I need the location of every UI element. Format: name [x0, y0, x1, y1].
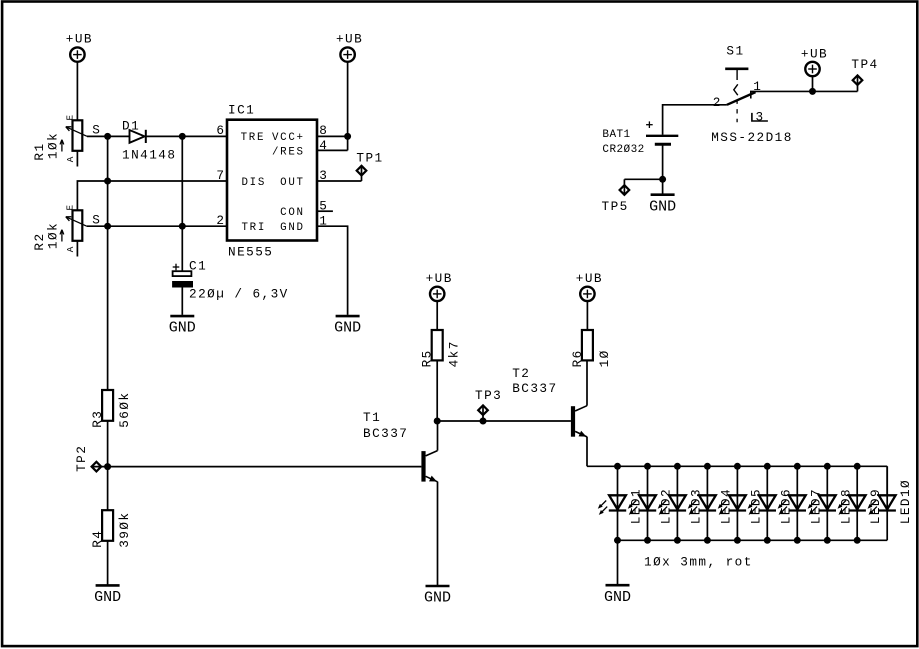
svg-text:39Øk: 39Øk	[117, 512, 132, 548]
svg-text:+UB: +UB	[66, 32, 93, 47]
svg-text:BC337: BC337	[512, 381, 557, 396]
svg-text:/RES: /RES	[272, 147, 305, 159]
svg-text:4: 4	[319, 138, 328, 153]
svg-text:OUT: OUT	[280, 177, 305, 189]
svg-text:1Ø: 1Ø	[597, 349, 612, 367]
svg-text:MSS-22D18: MSS-22D18	[711, 130, 793, 145]
svg-text:TP4: TP4	[851, 57, 878, 72]
svg-text:BC337: BC337	[363, 426, 408, 441]
svg-text:GND: GND	[169, 320, 196, 337]
svg-text:T2: T2	[512, 366, 530, 381]
svg-text:R2: R2	[32, 232, 47, 250]
svg-text:1Øx 3mm, rot: 1Øx 3mm, rot	[644, 555, 753, 570]
svg-text:C1: C1	[189, 259, 207, 274]
svg-text:CON: CON	[280, 207, 305, 219]
svg-text:VCC+: VCC+	[272, 132, 305, 144]
svg-text:T1: T1	[363, 410, 381, 425]
svg-text:S: S	[92, 123, 101, 138]
svg-text:+UB: +UB	[801, 46, 828, 61]
svg-text:4k7: 4k7	[447, 340, 462, 367]
svg-text:E: E	[64, 115, 75, 121]
svg-text:D1: D1	[122, 118, 140, 133]
svg-text:22Øµ / 6,3V: 22Øµ / 6,3V	[189, 287, 289, 302]
svg-text:TRI: TRI	[242, 222, 267, 234]
svg-text:7: 7	[216, 168, 225, 183]
svg-text:A: A	[65, 246, 76, 252]
svg-text:GND: GND	[280, 222, 305, 234]
svg-text:TP5: TP5	[602, 199, 629, 214]
svg-text:3: 3	[756, 109, 765, 124]
svg-text:R4: R4	[90, 530, 105, 548]
svg-text:3: 3	[319, 168, 328, 183]
svg-text:2: 2	[216, 213, 225, 228]
svg-text:CR2Ø32: CR2Ø32	[602, 144, 644, 156]
svg-text:+UB: +UB	[336, 32, 363, 47]
svg-text:+UB: +UB	[576, 271, 603, 286]
svg-text:GND: GND	[94, 589, 121, 606]
svg-text:1: 1	[319, 214, 328, 229]
svg-text:TP3: TP3	[475, 388, 502, 403]
svg-text:GND: GND	[604, 589, 631, 606]
svg-text:DIS: DIS	[242, 177, 267, 189]
svg-text:GND: GND	[649, 198, 676, 215]
svg-text:E: E	[64, 205, 75, 211]
svg-text:2: 2	[713, 95, 722, 110]
svg-text:1Øk: 1Øk	[46, 222, 61, 249]
svg-text:6: 6	[216, 123, 225, 138]
svg-text:R5: R5	[420, 349, 435, 367]
svg-text:1: 1	[753, 79, 762, 94]
svg-text:1N4148: 1N4148	[122, 148, 176, 163]
svg-text:GND: GND	[334, 320, 361, 337]
svg-text:GND: GND	[424, 590, 451, 607]
svg-text:LED1Ø: LED1Ø	[898, 479, 913, 524]
svg-text:R3: R3	[90, 410, 105, 428]
svg-text:NE555: NE555	[228, 244, 273, 259]
svg-text:1Øk: 1Øk	[46, 132, 61, 159]
svg-text:TP2: TP2	[74, 445, 89, 472]
svg-text:S1: S1	[726, 43, 744, 58]
svg-text:R6: R6	[570, 349, 585, 367]
svg-text:8: 8	[319, 123, 328, 138]
svg-text:A: A	[65, 156, 76, 162]
svg-text:BAT1: BAT1	[602, 129, 630, 141]
svg-text:R1: R1	[32, 142, 47, 160]
svg-text:TP1: TP1	[356, 151, 383, 166]
svg-text:+UB: +UB	[426, 271, 453, 286]
svg-text:5: 5	[319, 199, 328, 214]
svg-text:IC1: IC1	[228, 102, 255, 117]
svg-text:56Øk: 56Øk	[117, 392, 132, 428]
svg-text:TRE: TRE	[241, 132, 266, 144]
